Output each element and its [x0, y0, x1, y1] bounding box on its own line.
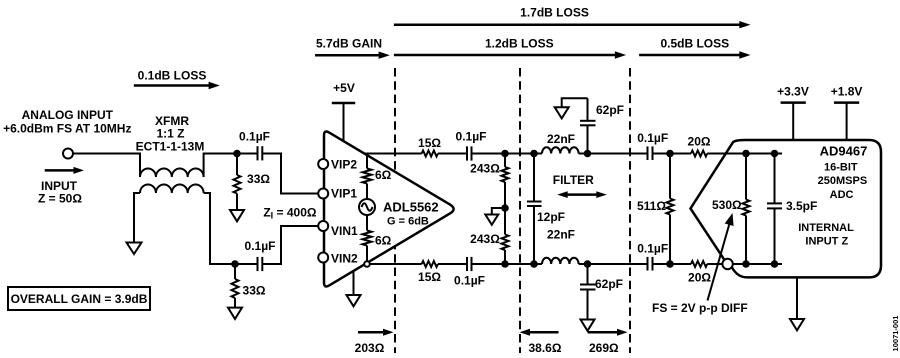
resistor 511 ohm: [667, 154, 674, 265]
svg-text:6Ω: 6Ω: [375, 234, 392, 248]
arrow FS to 530 ohm: [708, 213, 734, 301]
resistor 15 ohm (bottom): [422, 261, 438, 267]
resistor 6 ohm (top internal): [363, 154, 372, 200]
ground (243 mid): [485, 208, 505, 225]
ground (transformer secondary): [127, 243, 142, 255]
svg-text:62pF: 62pF: [596, 103, 624, 117]
svg-text:FILTER: FILTER: [553, 173, 594, 187]
ground (33 ohm top): [230, 210, 244, 221]
arrow 5.7dB gain: [315, 52, 390, 59]
svg-text:VIP2: VIP2: [331, 158, 357, 172]
svg-text:0.1µF: 0.1µF: [637, 131, 668, 145]
capacitor 62pF (bottom): [580, 264, 596, 320]
svg-text:38.6Ω: 38.6Ω: [529, 341, 562, 355]
resistor 20 ohm (top): [691, 151, 707, 157]
resistor 33 ohm (bottom): [232, 264, 239, 308]
svg-text:1.7dB LOSS: 1.7dB LOSS: [520, 6, 589, 20]
capacitor 0.1uF (top amp out): [467, 146, 472, 160]
pin VIP2: [318, 159, 328, 169]
wire cap to 20 ohm bottom: [653, 263, 692, 265]
wire 22nF bottom to right: [579, 263, 648, 265]
wire node to cap: [237, 153, 258, 155]
+3.3V supply bar: [781, 103, 806, 140]
svg-text:33Ω: 33Ω: [243, 284, 266, 298]
wire secondary left to ground: [134, 193, 140, 243]
node 3.5pF top: [771, 150, 779, 158]
wire secondary right to bottom node: [204, 193, 235, 264]
ground (62pF top, flag style): [555, 98, 588, 118]
ground (AD9467): [790, 277, 804, 330]
node 3.5pF bottom: [771, 260, 779, 268]
svg-text:0.1µF: 0.1µF: [454, 274, 485, 288]
arrow 269 ohm: [588, 329, 628, 336]
svg-text:5.7dB GAIN: 5.7dB GAIN: [316, 37, 382, 51]
resistor 6 ohm (bottom internal): [363, 215, 372, 261]
svg-text:33Ω: 33Ω: [247, 172, 270, 186]
wire 20 ohm bottom to circle: [707, 263, 722, 265]
node (amp output bottom, open): [364, 261, 370, 267]
wire 22nF to right: [579, 153, 648, 155]
node top (transformer/cap/33ohm): [233, 150, 241, 158]
pin VIN2: [318, 253, 328, 263]
svg-text:0.5dB LOSS: 0.5dB LOSS: [660, 37, 729, 51]
svg-text:203Ω: 203Ω: [355, 341, 385, 355]
svg-text:+3.3V: +3.3V: [777, 85, 809, 99]
svg-text:15Ω: 15Ω: [418, 270, 441, 284]
svg-text:VIN2: VIN2: [331, 252, 358, 266]
dashed separator line 3: [629, 68, 631, 353]
wire circle to box: [732, 263, 782, 265]
arrow filter double: [557, 191, 607, 198]
capacitor 0.1uF (top input): [258, 146, 263, 160]
svg-text:530Ω: 530Ω: [712, 198, 742, 212]
node 511 bottom: [666, 260, 674, 268]
node 243 chain bottom: [501, 260, 509, 268]
svg-text:0.1µF: 0.1µF: [637, 242, 668, 256]
svg-text:22nF: 22nF: [547, 228, 575, 242]
svg-text:10071-001: 10071-001: [891, 316, 900, 352]
+5V supply bar: [332, 102, 355, 105]
svg-text:0.1µF: 0.1µF: [456, 130, 487, 144]
ground (62pF bottom): [581, 320, 595, 331]
svg-text:Z = 50Ω: Z = 50Ω: [38, 192, 82, 206]
capacitor 0.1uF (bottom amp out): [467, 257, 472, 271]
capacitor 62pF (top): [580, 98, 596, 153]
svg-text:0.1µF: 0.1µF: [245, 239, 276, 253]
wire primary to top node: [204, 154, 236, 178]
input terminal circle: [63, 149, 73, 159]
arrow 1.7dB loss: [394, 21, 751, 28]
svg-text:+5V: +5V: [333, 81, 355, 95]
node 12pF top: [530, 150, 538, 158]
node 62pF bottom: [584, 260, 592, 268]
svg-text:OVERALL GAIN = 3.9dB: OVERALL GAIN = 3.9dB: [11, 292, 148, 306]
source (internal sine): [359, 199, 375, 215]
ADC U2 AD9467 box outline with input chevron: [691, 140, 882, 277]
wire cap to 22nF bottom: [472, 263, 543, 265]
node 62pF top: [584, 150, 592, 158]
arrow input direction: [45, 167, 84, 174]
resistor 243 ohm (top): [502, 154, 509, 209]
inductor-symbol 22nF (top): [542, 147, 579, 153]
svg-text:1:1 Z: 1:1 Z: [156, 127, 184, 141]
wire top rail amp out: [364, 153, 421, 155]
svg-text:243Ω: 243Ω: [470, 232, 500, 246]
svg-text:269Ω: 269Ω: [589, 341, 619, 355]
wire cap to 22nF: [472, 153, 543, 155]
svg-text:1.2dB LOSS: 1.2dB LOSS: [485, 37, 554, 51]
dashed separator line 1: [394, 68, 396, 353]
capacitor 0.1uF (top right): [648, 146, 653, 160]
svg-text:+6.0dBm FS AT 10MHz: +6.0dBm FS AT 10MHz: [3, 122, 131, 136]
resistor 20 ohm (bottom): [691, 261, 707, 267]
svg-text:3.5pF: 3.5pF: [786, 199, 817, 213]
node 530 bottom: [742, 260, 750, 268]
node 243 mid: [501, 204, 509, 212]
svg-text:243Ω: 243Ω: [470, 162, 500, 176]
svg-text:ANALOG INPUT: ANALOG INPUT: [22, 108, 114, 122]
wire 20 ohm top to box: [707, 153, 782, 155]
resistor 243 ohm (bottom): [502, 208, 509, 264]
transformer T1 secondary winding: [140, 185, 204, 194]
+1.8V supply bar: [834, 103, 859, 140]
svg-text:VIN1: VIN1: [331, 224, 358, 238]
overall gain box: [8, 287, 150, 310]
input port circle (open): [722, 259, 732, 269]
svg-text:12pF: 12pF: [537, 210, 565, 224]
node 511 top: [666, 150, 674, 158]
arrow 0.1dB loss: [134, 82, 220, 89]
wire to bottom cap: [438, 263, 467, 265]
wire bottom rail amp out: [370, 263, 422, 265]
svg-text:ECT1-1-13M: ECT1-1-13M: [136, 140, 205, 154]
node 530 top: [742, 150, 750, 158]
node 12pF bottom: [530, 260, 538, 268]
ground (amp): [347, 271, 361, 306]
svg-text:INPUT Z: INPUT Z: [805, 236, 848, 248]
svg-text:511Ω: 511Ω: [637, 199, 666, 213]
svg-text:20Ω: 20Ω: [688, 135, 711, 149]
svg-text:6Ω: 6Ω: [375, 168, 392, 182]
wire to cap: [438, 153, 467, 155]
svg-text:16-BIT: 16-BIT: [824, 161, 858, 173]
svg-text:250MSPS: 250MSPS: [818, 175, 868, 187]
svg-text:62pF: 62pF: [595, 277, 623, 291]
wire node to cap bottom: [235, 263, 258, 265]
svg-text:ADC: ADC: [830, 189, 854, 201]
dashed separator line 2: [519, 68, 521, 353]
arrow 0.5dB loss: [639, 51, 750, 58]
pin VIN1: [318, 221, 328, 231]
wire cap to 20 ohm top: [653, 153, 692, 155]
wire input to transformer: [73, 154, 140, 178]
svg-text:AD9467: AD9467: [820, 144, 868, 159]
capacitor 3.5pF: [767, 154, 782, 265]
svg-text:15Ω: 15Ω: [418, 136, 441, 150]
capacitor 12pF: [527, 154, 542, 265]
wire +5V to amp: [343, 103, 345, 142]
svg-text:22nF: 22nF: [547, 132, 575, 146]
capacitor 0.1uF (bottom right): [648, 257, 653, 271]
arrow 1.2dB loss: [394, 51, 626, 58]
svg-text:INTERNAL: INTERNAL: [798, 222, 854, 234]
arrow 38.6 ohm: [520, 329, 559, 336]
pin VIP1: [318, 189, 328, 199]
svg-text:+1.8V: +1.8V: [831, 85, 863, 99]
resistor 15 ohm (top): [422, 151, 438, 157]
wire cap to VIP1: [262, 154, 318, 194]
svg-text:20Ω: 20Ω: [688, 271, 711, 285]
arrow 203 ohm: [358, 329, 394, 336]
capacitor 0.1uF (bottom input): [258, 257, 263, 271]
transformer T1 primary winding: [140, 169, 204, 178]
resistor 33 ohm (top): [234, 154, 241, 211]
svg-text:VIP1: VIP1: [331, 187, 357, 201]
svg-text:G = 6dB: G = 6dB: [387, 216, 429, 228]
svg-text:FS = 2V p-p DIFF: FS = 2V p-p DIFF: [652, 301, 748, 315]
op-amp U1 ADL5562 triangle: [324, 132, 454, 287]
wire cap to VIN1: [262, 226, 318, 264]
node 243 chain top: [501, 150, 509, 158]
svg-text:0.1µF: 0.1µF: [239, 130, 270, 144]
svg-text:ADL5562: ADL5562: [383, 200, 439, 215]
ground (33 ohm bottom): [228, 308, 242, 319]
svg-text:0.1dB LOSS: 0.1dB LOSS: [138, 69, 207, 83]
inductor-symbol 22nF (bottom): [542, 258, 579, 264]
node bottom (transformer/cap/33ohm): [231, 260, 239, 268]
resistor 530 ohm: [743, 154, 750, 265]
